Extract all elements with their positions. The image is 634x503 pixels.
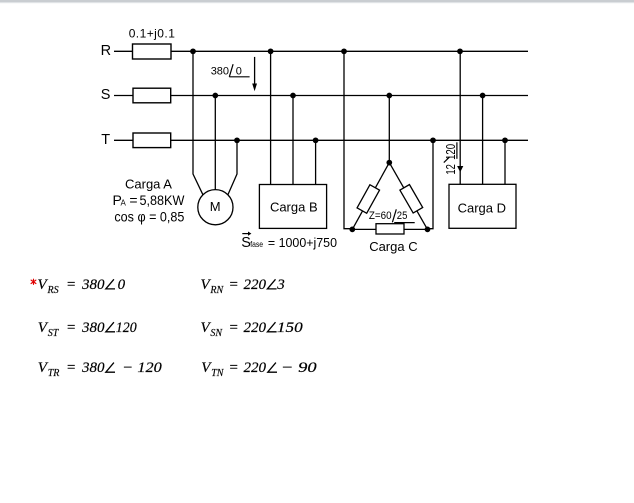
wire S lead xyxy=(114,95,133,97)
svg-text:0.1+j0.1: 0.1+j0.1 xyxy=(129,27,176,41)
svg-text:25: 25 xyxy=(397,210,408,222)
node R label xyxy=(101,43,111,59)
svg-text:=: = xyxy=(66,360,76,376)
junction S-cargaB xyxy=(290,93,296,99)
wire S to carga D xyxy=(482,96,484,185)
svg-text:cos φ = 0,85: cos φ = 0,85 xyxy=(114,208,184,224)
svg-text:S: S xyxy=(101,87,111,103)
delta side right xyxy=(389,163,427,230)
label 380 angle 0 xyxy=(211,64,250,77)
junction R-cargaC xyxy=(341,48,347,54)
svg-text:=: = xyxy=(66,320,76,336)
wire T to motor xyxy=(228,140,237,194)
value label 0.1+j0.1 xyxy=(129,27,176,41)
svg-text:SN: SN xyxy=(210,328,223,339)
svg-text:150: 150 xyxy=(277,320,303,336)
svg-text:Carga B: Carga B xyxy=(270,199,318,214)
equation V_TR = 380 angle -120 xyxy=(38,360,163,379)
impedance Z left xyxy=(357,185,379,214)
wire S to carga C xyxy=(388,96,390,163)
equation V_TN = 220 angle -90 xyxy=(201,360,317,379)
impedance Z right xyxy=(400,185,423,213)
wire T to carga D xyxy=(504,140,506,184)
svg-text:ST: ST xyxy=(48,328,60,339)
label PA = 5,88KW xyxy=(113,192,186,208)
svg-text:Carga C: Carga C xyxy=(369,239,417,254)
resistor R line impedance xyxy=(133,44,172,59)
svg-text:=: = xyxy=(229,320,239,336)
node delta top xyxy=(386,160,392,166)
svg-text:5,88KW: 5,88KW xyxy=(140,192,186,208)
wire S to carga B xyxy=(292,96,294,185)
svg-text:Carga A: Carga A xyxy=(125,177,172,192)
label Carga C xyxy=(369,239,417,254)
wire R to motor xyxy=(193,51,203,194)
junction R-cargaB xyxy=(268,48,274,54)
svg-text:M: M xyxy=(210,199,221,214)
svg-text:=: = xyxy=(229,277,239,293)
svg-text:= 1000+j750: = 1000+j750 xyxy=(268,236,337,250)
wire T to carga B xyxy=(315,140,317,184)
svg-text:380: 380 xyxy=(81,277,105,293)
svg-text:TR: TR xyxy=(48,368,60,379)
svg-text:380: 380 xyxy=(211,66,229,78)
svg-text:220: 220 xyxy=(244,277,267,293)
svg-text:120: 120 xyxy=(443,144,458,160)
wire T to carga C xyxy=(428,140,433,228)
equation V_ST = 380 angle 120 xyxy=(38,320,137,339)
junction R-cargaD xyxy=(457,48,463,54)
junction S-motor xyxy=(212,93,218,99)
junction S-cargaC xyxy=(386,93,392,99)
label cos phi = 0,85 xyxy=(114,208,184,224)
motor M xyxy=(198,190,233,225)
wire S to motor xyxy=(214,96,216,190)
svg-text:3: 3 xyxy=(276,277,285,293)
wire R to carga C xyxy=(344,51,352,228)
svg-text:T: T xyxy=(101,132,110,148)
junction S-cargaD xyxy=(480,93,486,99)
svg-text:12: 12 xyxy=(443,164,458,175)
label Carga A xyxy=(125,177,172,192)
equation marker asterisk xyxy=(31,279,36,284)
svg-text:RS: RS xyxy=(47,285,59,296)
svg-text:120: 120 xyxy=(116,320,137,336)
junction T-motor xyxy=(234,137,240,143)
resistor T line impedance xyxy=(133,133,171,148)
voltage arrow 380 angle 0 xyxy=(252,57,257,91)
svg-text:380: 380 xyxy=(81,320,105,336)
svg-text:Z=60: Z=60 xyxy=(369,210,392,222)
value label Z=60 angle 25 xyxy=(369,209,415,222)
delta side left xyxy=(352,163,389,230)
svg-text:Carga D: Carga D xyxy=(458,200,506,215)
wire R lead xyxy=(114,50,133,52)
junction T-cargaB xyxy=(313,137,319,143)
svg-text:A: A xyxy=(121,198,127,207)
svg-text:380: 380 xyxy=(81,360,105,376)
svg-text:220: 220 xyxy=(244,360,267,376)
wire R to carga B xyxy=(270,51,272,184)
svg-text:=: = xyxy=(129,192,137,208)
svg-text:0: 0 xyxy=(236,66,242,78)
load Carga B xyxy=(259,185,326,229)
node delta bottom-right xyxy=(425,227,431,233)
junction T-cargaC xyxy=(430,137,436,143)
load Carga D xyxy=(449,184,516,228)
node T label xyxy=(101,132,110,148)
equation V_RS = 380 angle 0 xyxy=(38,277,126,296)
junction T-cargaD xyxy=(502,137,508,143)
node S label xyxy=(101,87,111,103)
label S fase = 1000+j750 xyxy=(241,232,337,251)
equation V_SN = 220 angle 150 xyxy=(201,320,304,339)
equation V_RN = 220 angle 3 xyxy=(201,277,285,296)
svg-text:TN: TN xyxy=(211,368,225,379)
delta bottom xyxy=(352,228,427,230)
svg-text:− 120: − 120 xyxy=(122,360,162,376)
svg-text:− 90: − 90 xyxy=(281,360,317,376)
wire R to carga D with current arrow xyxy=(457,51,463,184)
svg-text:220: 220 xyxy=(244,320,267,336)
svg-text:=: = xyxy=(66,277,76,293)
junction R-motor xyxy=(190,48,196,54)
svg-text:RN: RN xyxy=(209,285,224,296)
impedance Z bottom xyxy=(376,224,404,234)
label 12 angle 120 rotated xyxy=(443,142,458,174)
window top edge xyxy=(0,0,634,3)
wire S bus xyxy=(171,95,528,97)
resistor S line impedance xyxy=(133,88,171,103)
svg-text:0: 0 xyxy=(118,277,126,293)
svg-text:=: = xyxy=(229,360,239,376)
wire T lead xyxy=(114,139,133,141)
wire R bus xyxy=(171,50,528,52)
node delta bottom-left xyxy=(349,227,355,233)
svg-text:R: R xyxy=(101,43,111,59)
svg-text:fase: fase xyxy=(250,240,263,249)
wire T bus xyxy=(171,139,528,141)
